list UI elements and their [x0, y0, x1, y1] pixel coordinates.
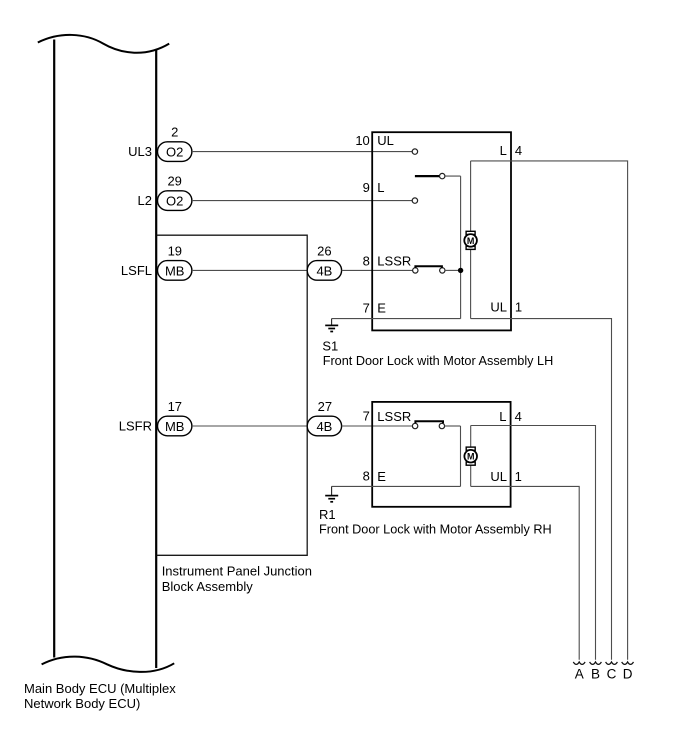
R1 switch common vertical [460, 426, 462, 486]
svg-text:L2: L2 [138, 193, 152, 208]
wire MB to 4B (LSFL row) [192, 269, 307, 271]
R1 LSSR blade [415, 421, 443, 423]
svg-text:M: M [467, 236, 475, 246]
svg-text:9: 9 [363, 180, 370, 195]
svg-text:E: E [377, 301, 386, 316]
svg-text:Instrument Panel Junction: Instrument Panel Junction [162, 564, 312, 579]
S1 box [372, 132, 511, 330]
bus top break wave [38, 35, 169, 53]
svg-text:O2: O2 [166, 194, 183, 209]
svg-text:7: 7 [363, 301, 370, 316]
svg-text:2: 2 [171, 124, 178, 139]
S1 selector switch blade [415, 175, 440, 177]
svg-text:L: L [499, 409, 506, 424]
wire S1 L4 to D [471, 161, 628, 660]
S1 selector pivot [440, 173, 445, 178]
wire S1 UL1 to C [471, 319, 612, 660]
svg-text:29: 29 [167, 174, 181, 189]
S1 LSSR contact a [413, 268, 418, 273]
svg-text:8: 8 [363, 469, 370, 484]
connector MB (LSFL) [158, 261, 192, 281]
wire contact to common [445, 425, 461, 427]
R1 box [372, 402, 510, 507]
svg-text:Network Body ECU): Network Body ECU) [24, 696, 140, 711]
svg-text:17: 17 [168, 399, 182, 414]
svg-text:C: C [607, 666, 617, 681]
svg-text:10: 10 [355, 133, 369, 148]
R1 ground [325, 486, 338, 501]
svg-text:O2: O2 [166, 145, 183, 160]
bus bottom break wave [42, 657, 175, 672]
instrument panel junction block box [157, 235, 308, 555]
svg-text:1: 1 [515, 300, 522, 315]
svg-text:Front Door Lock with Motor Ass: Front Door Lock with Motor Assembly RH [319, 523, 552, 537]
svg-text:Front Door Lock with Motor Ass: Front Door Lock with Motor Assembly LH [323, 354, 554, 368]
svg-text:Main Body ECU (Multiplex: Main Body ECU (Multiplex [24, 681, 176, 696]
svg-text:UL: UL [490, 469, 507, 484]
motor M2 (R1) [464, 447, 477, 465]
break squiggle B [590, 662, 602, 664]
svg-text:27: 27 [318, 399, 332, 414]
svg-text:MB: MB [165, 419, 185, 434]
wire 4B to R1 pin7 LSSR [342, 425, 413, 427]
svg-text:R1: R1 [319, 507, 336, 522]
svg-text:MB: MB [165, 263, 185, 278]
wire R1 UL1 to A [471, 486, 580, 659]
main body ECU bus left line [53, 40, 55, 658]
svg-text:8: 8 [363, 254, 370, 269]
svg-text:LSFL: LSFL [121, 263, 152, 278]
svg-text:4: 4 [515, 143, 522, 158]
R1 LSSR contact b [439, 423, 444, 428]
svg-text:19: 19 [168, 244, 182, 259]
wire 4B to S1 pin8 LSSR [342, 269, 413, 271]
svg-text:LSSR: LSSR [377, 254, 411, 269]
S1 switch common vertical [460, 176, 462, 319]
wire L2 to S1 pin9 [192, 200, 412, 202]
svg-text:7: 7 [363, 408, 370, 423]
svg-text:L: L [500, 143, 507, 158]
svg-text:4B: 4B [316, 419, 332, 434]
contact terminal pin10 [412, 149, 417, 154]
S1 ground [325, 319, 338, 332]
svg-text:S1: S1 [322, 339, 338, 354]
svg-text:4: 4 [515, 409, 522, 424]
wire LSSR contact to common [445, 269, 461, 271]
svg-text:LSFR: LSFR [119, 419, 152, 434]
svg-text:4B: 4B [316, 263, 332, 278]
S1 LSSR blade [415, 266, 442, 268]
connector 4B (LSFR row) [307, 416, 341, 436]
connector O2 (L2) [158, 191, 192, 211]
break squiggle A [573, 662, 585, 664]
S1 LSSR contact b [440, 268, 445, 273]
break squiggle D [622, 662, 634, 664]
motor M1 (S1) [464, 231, 477, 249]
S1 E wire to ground [332, 318, 461, 320]
contact terminal pin9 [412, 198, 417, 203]
svg-text:L: L [377, 180, 384, 195]
R1 E wire to ground [332, 485, 461, 487]
wire UL3 to S1 pin10 [192, 151, 412, 153]
wire R1 L4 to B [471, 426, 596, 660]
svg-text:LSSR: LSSR [377, 409, 411, 424]
S1 motor branch vertical [470, 161, 472, 319]
wire MB to 4B (LSFR row) [192, 425, 307, 427]
svg-text:D: D [623, 666, 633, 681]
svg-text:26: 26 [317, 244, 331, 259]
break squiggle C [606, 662, 618, 664]
R1 motor branch vertical [470, 426, 472, 487]
svg-text:UL: UL [377, 133, 394, 148]
svg-text:UL: UL [490, 300, 507, 315]
connector MB (LSFR) [158, 416, 192, 436]
svg-text:E: E [377, 469, 386, 484]
connector 4B (LSFL row) [307, 261, 341, 281]
junction dot [458, 268, 463, 273]
svg-text:B: B [591, 666, 600, 681]
svg-text:Block Assembly: Block Assembly [162, 579, 254, 594]
svg-text:A: A [575, 666, 584, 681]
main body ECU bus right line [155, 49, 157, 668]
svg-text:1: 1 [515, 469, 522, 484]
R1 LSSR contact a [412, 423, 417, 428]
svg-text:M: M [467, 452, 475, 462]
wire pivot to common [445, 175, 461, 177]
connector O2 (UL3) [158, 142, 192, 162]
svg-text:UL3: UL3 [128, 144, 152, 159]
